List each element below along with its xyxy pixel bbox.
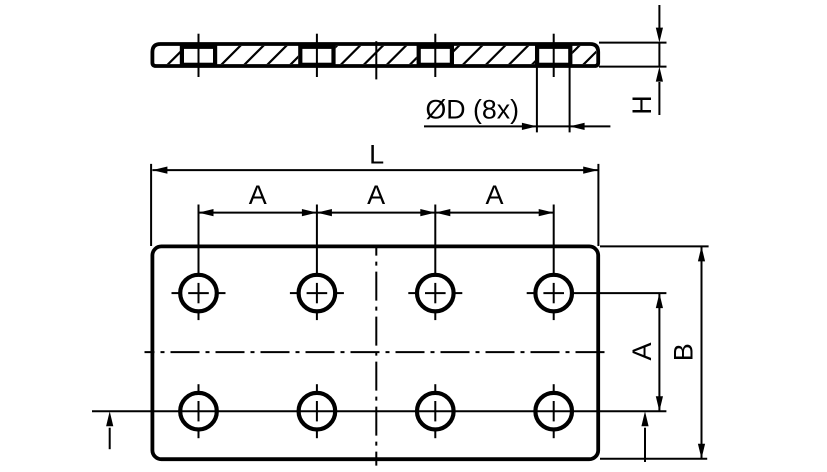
- svg-text:ØD (8x): ØD (8x): [426, 94, 520, 124]
- svg-text:A: A: [249, 180, 267, 210]
- svg-text:A: A: [367, 180, 385, 210]
- svg-text:L: L: [369, 140, 384, 170]
- svg-text:H: H: [627, 95, 657, 115]
- svg-text:B: B: [669, 343, 699, 361]
- svg-text:A: A: [627, 342, 657, 360]
- svg-text:A: A: [485, 180, 503, 210]
